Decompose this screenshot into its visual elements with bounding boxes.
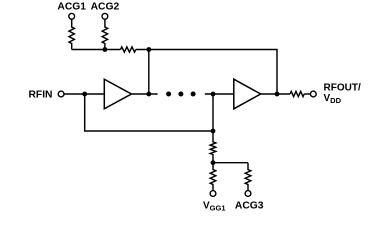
svg-text:RFIN: RFIN bbox=[28, 90, 52, 101]
svg-text:RFOUT/: RFOUT/ bbox=[324, 83, 361, 94]
svg-text:ACG3: ACG3 bbox=[235, 201, 264, 212]
svg-text:ACG1: ACG1 bbox=[57, 2, 86, 13]
svg-text:ACG2: ACG2 bbox=[91, 2, 120, 13]
